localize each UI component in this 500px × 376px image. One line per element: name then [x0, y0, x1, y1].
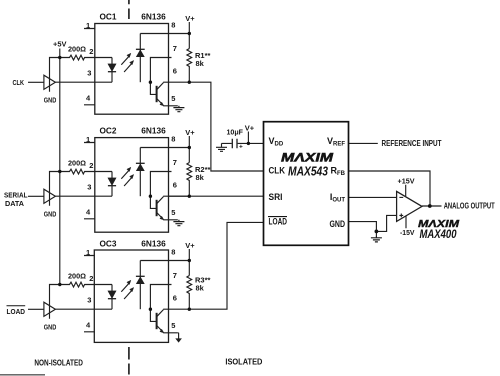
svg-text:NON-ISOLATED: NON-ISOLATED — [34, 358, 83, 367]
svg-text:CLK: CLK — [13, 78, 25, 87]
svg-text:V+: V+ — [245, 124, 255, 133]
svg-text:OC1: OC1 — [100, 12, 117, 22]
svg-text:MΛXIM: MΛXIM — [281, 151, 334, 165]
svg-text:MAX400: MAX400 — [420, 229, 457, 241]
svg-text:MAX543: MAX543 — [288, 165, 328, 179]
svg-text:8k: 8k — [196, 59, 205, 68]
svg-text:LOAD: LOAD — [7, 307, 26, 316]
svg-text:LOAD: LOAD — [269, 217, 288, 227]
svg-text:VREF: VREF — [327, 136, 345, 147]
svg-text:OC2: OC2 — [100, 126, 117, 136]
svg-text:8k: 8k — [196, 173, 205, 182]
svg-text:OC3: OC3 — [100, 239, 117, 249]
svg-text:ISOLATED: ISOLATED — [225, 358, 262, 367]
svg-text:RFB: RFB — [331, 166, 346, 177]
svg-text:DATA: DATA — [5, 199, 25, 208]
svg-text:+15V: +15V — [398, 176, 415, 185]
svg-text:+5V: +5V — [53, 40, 67, 49]
svg-text:+: + — [239, 144, 243, 151]
svg-text:8k: 8k — [196, 283, 205, 292]
svg-text:CLK: CLK — [269, 166, 286, 176]
svg-text:IOUT: IOUT — [330, 192, 346, 203]
svg-text:GND: GND — [330, 219, 346, 229]
svg-text:ANALOG OUTPUT: ANALOG OUTPUT — [444, 202, 495, 211]
svg-text:10μF: 10μF — [227, 127, 244, 136]
svg-text:VDD: VDD — [269, 136, 284, 147]
svg-text:REFERENCE INPUT: REFERENCE INPUT — [382, 139, 442, 148]
svg-text:-15V: -15V — [400, 228, 415, 237]
svg-text:SRI: SRI — [269, 192, 283, 202]
